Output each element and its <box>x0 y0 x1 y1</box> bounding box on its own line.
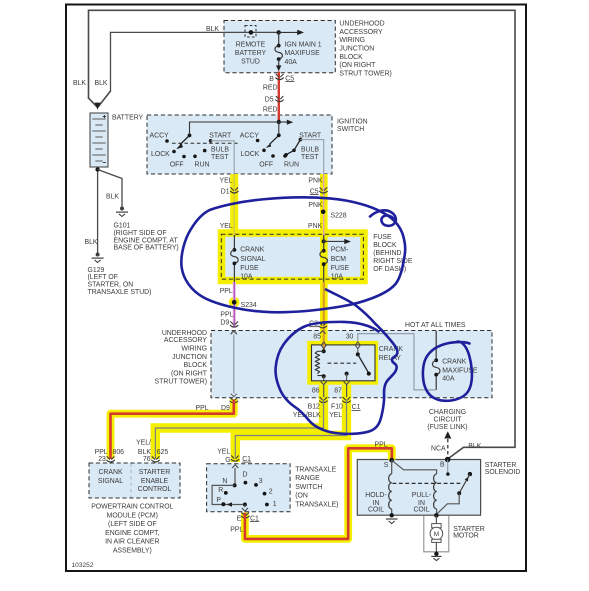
svg-text:D5: D5 <box>265 97 274 104</box>
wire battery negative branch to ground G101 (BLK) <box>98 170 122 208</box>
pull-in coil <box>434 474 437 509</box>
svg-text:OFF: OFF <box>170 161 184 168</box>
svg-text:BLOCK: BLOCK <box>373 242 397 249</box>
svg-text:F10: F10 <box>331 404 343 411</box>
yellow highlight on YEL wire from relay pin 87 (F10) to transaxle range switch pin G <box>235 385 346 462</box>
svg-text:SOLENOID: SOLENOID <box>485 469 521 476</box>
arrow into battery positive terminal <box>95 103 101 110</box>
battery minus terminal mark <box>103 162 106 164</box>
fuse PCM-BCM FUSE 10A <box>323 235 325 282</box>
arrow out of junction block 1 <box>276 65 281 71</box>
node transaxle switch output junction <box>243 503 247 507</box>
wire crank relay pin 87 to F10 <box>346 374 348 398</box>
svg-text:BLK: BLK <box>106 193 119 200</box>
crank relay box <box>312 345 376 381</box>
svg-text:S: S <box>384 462 389 469</box>
svg-text:YEL: YEL <box>329 412 342 419</box>
svg-text:10A: 10A <box>240 273 253 280</box>
svg-text:FUSE: FUSE <box>240 265 259 272</box>
svg-text:PPL: PPL <box>196 405 209 412</box>
svg-text:G129: G129 <box>88 267 105 274</box>
svg-text:PNK: PNK <box>308 177 323 184</box>
svg-text:PPL: PPL <box>95 449 108 456</box>
svg-text:ENGINE COMPT,: ENGINE COMPT, <box>105 530 159 537</box>
wire crank relay pin 30 feed from crank maxifuse <box>358 334 436 390</box>
ignition switch bank 2 start bridge lever <box>286 140 300 155</box>
svg-text:CRANK: CRANK <box>98 469 123 476</box>
svg-text:CRANK: CRANK <box>240 247 265 254</box>
ignition switch bank 1 contact START <box>209 139 213 143</box>
wire starter motor to ground <box>435 542 437 553</box>
wire solenoid to starter motor <box>435 515 437 523</box>
node battery negative junction <box>95 167 99 171</box>
transaxle range switch box <box>207 464 291 512</box>
svg-text:ENGINE COMPT, AT: ENGINE COMPT, AT <box>114 237 179 244</box>
pull-in coil to motor junction <box>436 509 438 515</box>
crank relay actuation dashed link <box>328 362 357 364</box>
svg-text:PPL: PPL <box>230 526 243 533</box>
crank relay pin 87 contact <box>345 372 349 376</box>
yellow highlight on PPL wire from transaxle switch E to starter solenoid S <box>245 448 392 539</box>
svg-text:COIL: COIL <box>368 507 384 514</box>
PCM box internal divider <box>130 464 132 498</box>
wire RED from junction block 1 to ignition switch <box>278 72 280 123</box>
node transaxle switch contact D <box>244 481 248 485</box>
svg-text:B12: B12 <box>308 404 320 411</box>
svg-text:CIRCUIT: CIRCUIT <box>434 416 463 423</box>
svg-text:POWERTRAIN CONTROL: POWERTRAIN CONTROL <box>91 504 173 511</box>
wire switch pivot to pull-in coil bottom <box>437 493 459 513</box>
node transaxle switch contact N <box>233 483 237 487</box>
svg-text:(ON: (ON <box>295 493 308 500</box>
ground at starter motor <box>434 552 438 556</box>
crank relay switch contact from pin 30 <box>357 349 359 354</box>
svg-text:UNDERHOOD: UNDERHOOD <box>162 330 207 337</box>
svg-text:ASSEMBLY): ASSEMBLY) <box>113 548 152 555</box>
svg-text:STRUT TOWER): STRUT TOWER) <box>339 70 391 77</box>
svg-text:RIGHT SIDE: RIGHT SIDE <box>373 258 413 265</box>
node transaxle switch contact P <box>221 502 225 506</box>
crank relay pin 30 terminal <box>355 342 360 349</box>
svg-text:JUNCTION: JUNCTION <box>339 46 374 53</box>
svg-text:RED: RED <box>263 85 278 92</box>
svg-text:ACCESSORY: ACCESSORY <box>339 29 383 36</box>
svg-text:D9: D9 <box>221 405 230 412</box>
svg-text:BLOCK: BLOCK <box>339 54 363 61</box>
wire PPL (RED highlighted) D9 to PCM crank signal <box>111 400 234 460</box>
svg-text:(LEFT OF: (LEFT OF <box>88 274 119 281</box>
yellow highlight on YEL/BLK wire from relay pin 86 (B12) to PCM pin 76 <box>155 385 323 459</box>
blue pen loop around crank relay with tail <box>276 290 398 434</box>
svg-text:B: B <box>269 76 274 83</box>
svg-text:D: D <box>243 472 248 479</box>
svg-text:RANGE: RANGE <box>295 475 320 482</box>
connector D9 out of junction block 2 <box>230 398 238 403</box>
svg-text:103252: 103252 <box>72 562 94 569</box>
svg-text:S228: S228 <box>331 213 347 220</box>
blue pen loop around crank maxifuse <box>423 342 472 401</box>
yellow highlight on YEL wire from ignition switch to fuse block <box>230 174 238 235</box>
svg-text:IGNITION: IGNITION <box>337 118 368 125</box>
svg-text:LOCK: LOCK <box>151 151 170 158</box>
junction block 2 box (underhood accessory wiring junction block) <box>211 331 492 398</box>
starter solenoid actuation dashed link <box>393 482 462 484</box>
svg-text:(ON RIGHT: (ON RIGHT <box>339 62 376 69</box>
wire PNK/ORN core from fuse block to crank relay pin 85 (C2) <box>323 282 325 351</box>
svg-text:COIL: COIL <box>413 507 429 514</box>
svg-text:BASE OF BATTERY): BASE OF BATTERY) <box>114 245 179 252</box>
svg-text:E: E <box>237 515 242 522</box>
svg-text:LOCK: LOCK <box>241 151 260 158</box>
wire YEL core ignition to fuse block <box>233 174 235 235</box>
svg-text:STARTER: STARTER <box>139 469 171 476</box>
svg-text:(RIGHT SIDE OF: (RIGHT SIDE OF <box>114 230 167 237</box>
svg-text:BCM: BCM <box>331 256 347 263</box>
yellow highlight circle on splice S234 <box>229 297 240 308</box>
svg-text:START: START <box>209 132 232 139</box>
node splice S234 <box>232 300 237 305</box>
ignition switch bank 2 contact LOCK <box>262 149 266 153</box>
ground at starter solenoid hold-in coil <box>386 518 398 520</box>
svg-text:N: N <box>222 478 227 485</box>
wire transaxle switch output to pin E <box>244 505 246 508</box>
svg-text:PPL: PPL <box>375 442 388 449</box>
svg-text:ACCESSORY: ACCESSORY <box>164 337 208 344</box>
connector B12 at junction block 2 border <box>320 397 328 402</box>
svg-text:YEL: YEL <box>220 177 233 184</box>
ignition switch bank 1 contact OFF <box>182 155 186 159</box>
svg-text:(FUSE LINK): (FUSE LINK) <box>427 424 467 431</box>
svg-text:ACCY: ACCY <box>240 132 260 139</box>
svg-text:R: R <box>218 487 223 494</box>
svg-text:CONTROL: CONTROL <box>138 486 172 493</box>
wire ignition switch feed to bank 1 <box>190 122 279 134</box>
fuse CRANK SIGNAL FUSE 10A <box>233 235 235 282</box>
svg-text:RUN: RUN <box>284 161 299 168</box>
svg-text:1: 1 <box>273 501 277 508</box>
wire YEL core F10 to transaxle range switch G <box>235 400 346 458</box>
starter motor M1 brush top <box>432 524 441 528</box>
blue pen loop around fuse block <box>181 197 405 312</box>
node PCM-BCM fuse feed junction <box>322 239 326 243</box>
svg-text:CRANK: CRANK <box>442 359 467 366</box>
fuse block box fill <box>221 234 363 279</box>
svg-text:G: G <box>225 457 230 464</box>
node starter solenoid switch pivot <box>457 491 461 495</box>
connector C5 terminal B on RED wire <box>276 74 284 79</box>
connector F10 / C1 at junction block 2 border <box>343 397 351 402</box>
ignition switch bank 2 contact BULB TEST <box>292 149 296 153</box>
svg-text:RELAY: RELAY <box>379 355 401 362</box>
svg-text:STARTER, ON: STARTER, ON <box>88 282 134 289</box>
ignition switch bank 2 contact OFF <box>271 154 275 158</box>
junction block 1 box (underhood accessory wiring junction block) <box>224 21 335 73</box>
svg-text:ENABLE: ENABLE <box>141 478 169 485</box>
ignition switch bank 1 contact RUN <box>193 155 197 159</box>
ignition switch bank 1 rotor lever <box>188 134 192 138</box>
ignition switch bank 2 contact RUN <box>283 154 287 158</box>
node IGN MAIN 1 maxifuse tap junction <box>277 30 281 34</box>
ignition switch box <box>147 115 332 174</box>
connector C1 pin E below transaxle range switch <box>241 513 249 518</box>
svg-text:806: 806 <box>113 449 125 456</box>
node starter solenoid terminal S <box>389 458 394 463</box>
ignition switch bank 1 contact BULB TEST <box>203 149 207 153</box>
connector at PCM pin 76/625 YEL/BLK input <box>152 457 160 462</box>
svg-text:G101: G101 <box>114 222 131 229</box>
starter motor M1 armature circle <box>430 527 443 540</box>
svg-text:HOT AT ALL TIMES: HOT AT ALL TIMES <box>405 322 466 329</box>
svg-text:PPL: PPL <box>220 311 233 318</box>
svg-text:SIGNAL: SIGNAL <box>240 256 265 263</box>
svg-text:IGN MAIN 1: IGN MAIN 1 <box>285 42 322 49</box>
starter solenoid box <box>357 460 480 516</box>
svg-text:CHARGING: CHARGING <box>429 409 466 416</box>
ground G129 <box>96 253 100 257</box>
wire transaxle switch wiper path N to E <box>212 485 243 504</box>
svg-text:HOLD-: HOLD- <box>365 492 386 499</box>
svg-text:FUSE: FUSE <box>331 265 350 272</box>
svg-text:PCM-: PCM- <box>331 247 349 254</box>
svg-text:STRUT TOWER): STRUT TOWER) <box>155 379 207 386</box>
svg-text:TRANSAXLE): TRANSAXLE) <box>295 502 338 509</box>
starter motor M1 brush bottom <box>432 539 441 542</box>
fuse IGN MAIN 1 MAXIFUSE 40A <box>278 32 280 45</box>
wire crank relay pin 86 to B12 <box>323 376 325 397</box>
hold-in coil feed <box>391 460 393 474</box>
svg-text:WIRING: WIRING <box>181 345 207 352</box>
diagram border frame <box>66 5 526 572</box>
starter motor case bracket <box>424 516 449 552</box>
node transaxle switch contact R <box>224 491 228 495</box>
svg-text:REMOTE: REMOTE <box>236 42 266 49</box>
yellow highlight rectangle around fuse block <box>222 233 365 281</box>
node starter solenoid terminal B <box>445 457 451 463</box>
svg-text:BATTERY: BATTERY <box>235 50 267 57</box>
connector C2 into junction block 2 <box>319 323 327 328</box>
connector D5 on RED wire <box>276 96 284 101</box>
svg-text:BLK: BLK <box>85 239 98 246</box>
svg-text:TEST: TEST <box>211 154 229 161</box>
svg-text:(BEHIND: (BEHIND <box>373 250 401 257</box>
svg-text:RUN: RUN <box>195 161 210 168</box>
svg-text:FUSE: FUSE <box>373 234 392 241</box>
wire S to pull-in coil <box>392 460 437 474</box>
svg-text:START: START <box>299 132 322 139</box>
svg-text:D9: D9 <box>220 320 229 327</box>
wire transaxle switch pin G entry <box>232 465 238 468</box>
node ignition switch feed junction <box>277 120 281 124</box>
svg-text:MODULE (PCM): MODULE (PCM) <box>107 512 158 519</box>
svg-text:BLOCK: BLOCK <box>184 362 208 369</box>
svg-text:SIGNAL: SIGNAL <box>98 478 123 485</box>
connector C5 on PNK wire <box>320 188 328 193</box>
wire YEL from bank 1 START inside switch <box>211 141 235 174</box>
svg-text:NCA: NCA <box>431 446 446 453</box>
wire battery cable V-leg right <box>98 91 110 107</box>
svg-text:MOTOR: MOTOR <box>453 533 479 540</box>
yellow highlight arrow mark inside crank relay <box>325 357 331 366</box>
node transaxle switch contact 2 <box>263 492 267 496</box>
svg-text:23: 23 <box>98 456 106 463</box>
battery <box>90 113 108 167</box>
fuse block box dashed border <box>221 234 363 279</box>
svg-text:M: M <box>434 531 439 538</box>
fuse CRANK MAXIFUSE 40A <box>435 331 437 390</box>
crank relay pin 85 terminal <box>321 342 326 349</box>
wire YEL/BLK core B12 to PCM pin 76 <box>155 400 323 460</box>
starter solenoid switch lever <box>460 474 470 493</box>
svg-text:P: P <box>216 497 221 504</box>
svg-text:40A: 40A <box>285 59 298 66</box>
wire junction block 1 feed arrow <box>279 31 298 33</box>
svg-text:SWITCH: SWITCH <box>295 484 322 491</box>
svg-text:2: 2 <box>269 489 273 496</box>
svg-text:WIRING: WIRING <box>339 37 365 44</box>
starter solenoid moving contact upper node <box>468 472 472 476</box>
starter solenoid B contact stem <box>447 460 449 473</box>
svg-text:TEST: TEST <box>301 154 319 161</box>
svg-text:D1: D1 <box>221 188 230 195</box>
wire battery to remote battery stud (BLK) <box>111 32 279 92</box>
node splice S228 <box>321 210 326 215</box>
node pull-in coil / motor junction <box>434 513 439 518</box>
svg-text:76: 76 <box>143 456 151 463</box>
svg-text:BLK: BLK <box>206 26 219 33</box>
svg-text:YEL: YEL <box>220 223 233 230</box>
connector C1 pin G at transaxle range switch <box>231 456 239 461</box>
svg-text:IN AIR CLEANER: IN AIR CLEANER <box>105 539 159 546</box>
svg-text:BLK: BLK <box>138 449 151 456</box>
connector D1 on YEL wire <box>230 188 238 193</box>
junction block 1 remote battery stud <box>245 26 256 38</box>
svg-text:JUNCTION: JUNCTION <box>172 354 207 361</box>
svg-text:10A: 10A <box>331 273 344 280</box>
node remote battery stud terminal <box>249 30 254 35</box>
svg-text:RED: RED <box>263 107 278 114</box>
svg-text:SWITCH: SWITCH <box>337 126 364 133</box>
connector D9 into junction block 2 <box>230 322 238 327</box>
yellow highlight rectangle around crank relay <box>311 345 375 382</box>
svg-text:BULB: BULB <box>211 147 229 154</box>
svg-text:PNK: PNK <box>308 202 323 209</box>
svg-text:PNK: PNK <box>308 223 323 230</box>
svg-text:MAXIFUSE: MAXIFUSE <box>285 50 321 57</box>
wire battery cable V-leg left <box>89 98 97 107</box>
hold-in coil to ground <box>391 509 393 515</box>
ignition switch mechanical link dashed <box>172 142 239 144</box>
svg-text:BLK: BLK <box>468 443 481 450</box>
svg-text:PPL: PPL <box>220 288 233 295</box>
ignition switch bank 2 contact ACCY <box>256 139 260 143</box>
svg-text:PULL-: PULL- <box>412 492 432 499</box>
ignition switch bank 1 contact ACCY <box>165 139 169 143</box>
svg-text:3: 3 <box>259 478 263 485</box>
svg-text:UNDERHOOD: UNDERHOOD <box>339 21 384 28</box>
node transaxle switch contact 3 <box>254 483 258 487</box>
svg-text:BLK: BLK <box>73 80 86 87</box>
ground G101 <box>120 207 124 211</box>
wire PNK core ignition to fuse block <box>323 174 325 241</box>
svg-text:YEL: YEL <box>217 449 230 456</box>
yellow highlight on PPL wire from D9 to PCM crank signal input <box>111 399 234 459</box>
wire PPL (RED highlighted) transaxle E to starter solenoid S <box>245 448 392 539</box>
svg-text:TRANSAXLE: TRANSAXLE <box>295 467 336 474</box>
svg-text:86: 86 <box>312 388 320 395</box>
battery plus terminal mark <box>103 115 106 118</box>
PCM box (powertrain control module) <box>89 463 180 498</box>
svg-text:85: 85 <box>313 333 321 340</box>
svg-text:(LEFT SIDE OF: (LEFT SIDE OF <box>108 521 157 528</box>
node transaxle switch contact 1 <box>265 503 269 507</box>
ignition switch bank 2 rotor lever <box>278 122 280 133</box>
wire ignition switch feed arrow right <box>279 121 287 123</box>
svg-text:30: 30 <box>346 333 354 340</box>
blue pen hook at top right of fuse block loop <box>370 210 396 225</box>
svg-text:87: 87 <box>334 388 342 395</box>
yellow highlight on PNK wire from ignition switch through fuse block to crank relay <box>320 174 328 344</box>
ignition switch bank 2 contact START <box>299 138 303 142</box>
wire PNK from bank 2 START inside switch <box>300 140 323 174</box>
crank relay coil <box>322 349 326 353</box>
svg-text:OFF: OFF <box>259 161 273 168</box>
wire NCA dashed to charging circuit <box>447 439 449 458</box>
hold-in coil <box>389 474 392 509</box>
wire fuse block feed arrow <box>324 240 345 242</box>
svg-text:BLK: BLK <box>95 80 108 87</box>
svg-text:CRANK: CRANK <box>379 346 404 353</box>
connector at PCM pin 23/806 PPL input <box>107 457 115 462</box>
svg-text:S234: S234 <box>241 302 257 309</box>
svg-text:STUD: STUD <box>241 58 260 65</box>
ignition switch bank 1 contact LOCK <box>172 150 176 154</box>
svg-text:YEL/: YEL/ <box>136 440 151 447</box>
wire battery negative to ground G129 (BLK) <box>97 169 99 254</box>
svg-text:BULB: BULB <box>301 147 319 154</box>
svg-text:625: 625 <box>157 449 169 456</box>
svg-text:(ON RIGHT: (ON RIGHT <box>171 370 208 377</box>
svg-text:40A: 40A <box>442 376 455 383</box>
wire PPL pass-through in junction block 2 <box>233 335 235 394</box>
svg-text:BATTERY: BATTERY <box>112 114 144 121</box>
wire PPL from crank signal fuse to D9 junction block 2 <box>233 282 236 328</box>
svg-text:ACCY: ACCY <box>150 132 170 139</box>
battery positive cable wire (BLK) battery to starter solenoid B <box>89 10 516 458</box>
svg-text:TRANSAXLE STUD): TRANSAXLE STUD) <box>88 289 152 296</box>
svg-text:B: B <box>440 462 445 469</box>
